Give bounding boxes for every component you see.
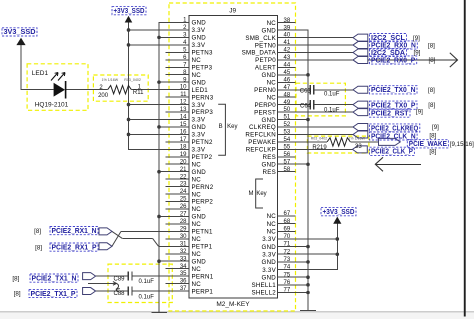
svg-text:56: 56 [284,152,291,158]
svg-text:PCIE2_RX1_P: PCIE2_RX1_P [52,244,97,251]
svg-text:30: 30 [180,234,187,240]
svg-text:45: 45 [284,70,291,76]
svg-text:3.3V: 3.3V [192,132,206,139]
svg-text:69: 69 [284,226,291,232]
svg-text:1% 1/16W: 1% 1/16W [348,137,365,141]
svg-text:PERN2: PERN2 [192,184,214,191]
svg-text:GND: GND [192,214,207,221]
svg-text:NC: NC [267,229,277,236]
svg-text:HQ19-2101: HQ19-2101 [35,102,69,109]
svg-text:[8]: [8] [429,148,436,155]
svg-text:[8]: [8] [429,132,436,139]
svg-text:NC: NC [267,221,277,228]
svg-text:+3V3_SSD: +3V3_SSD [114,8,145,15]
svg-text:NC: NC [267,80,277,87]
svg-text:GND: GND [192,79,207,86]
svg-text:NC: NC [192,161,202,168]
svg-text:37: 37 [180,286,187,292]
svg-text:PERP1: PERP1 [192,288,214,295]
svg-text:19: 19 [180,152,187,158]
svg-text:33: 33 [355,144,362,150]
svg-text:67: 67 [284,211,291,217]
svg-text:33: 33 [180,256,187,262]
svg-text:18: 18 [180,144,187,150]
svg-text:PERP0: PERP0 [254,102,276,109]
svg-text:C88: C88 [113,291,125,297]
svg-text:Key: Key [227,124,237,130]
svg-text:31: 31 [180,241,187,247]
svg-text:[8]: [8] [428,102,435,109]
svg-text:GND: GND [262,72,277,79]
svg-text:SHELL1: SHELL1 [251,282,276,289]
svg-text:70: 70 [284,234,291,240]
svg-text:16: 16 [180,130,187,136]
svg-text:PERN1: PERN1 [192,273,214,280]
svg-text:46: 46 [284,77,291,83]
svg-text:[9]: [9] [414,50,421,57]
svg-text:44: 44 [284,63,291,69]
svg-text:48: 48 [284,92,291,98]
svg-text:0.1uF: 0.1uF [139,279,155,285]
svg-text:12: 12 [180,100,187,106]
svg-text:GND: GND [262,244,277,251]
svg-text:R03_0402: R03_0402 [124,78,141,82]
svg-text:76: 76 [284,280,291,286]
svg-text:PETP2: PETP2 [192,154,213,161]
svg-text:0.1uF: 0.1uF [324,108,340,114]
svg-text:27: 27 [180,212,187,218]
svg-text:200: 200 [98,93,109,99]
svg-text:20: 20 [180,159,187,165]
svg-text:54: 54 [284,137,291,143]
svg-text:41: 41 [284,40,291,46]
svg-text:PERP3: PERP3 [192,109,214,116]
svg-text:36: 36 [180,279,187,285]
svg-text:PERN0: PERN0 [254,87,276,94]
svg-text:[8]: [8] [14,291,21,298]
svg-text:25: 25 [180,197,187,203]
svg-text:C89: C89 [113,276,125,282]
svg-text:52: 52 [284,122,291,128]
svg-text:3.3V: 3.3V [262,251,276,258]
svg-text:NC: NC [267,20,277,27]
svg-text:REFCLKP: REFCLKP [246,147,276,154]
svg-text:PERN3: PERN3 [192,94,214,101]
svg-text:3.3V: 3.3V [192,117,206,124]
svg-text:73: 73 [284,257,291,263]
svg-text:PETP0: PETP0 [255,57,276,64]
svg-text:26: 26 [180,204,187,210]
svg-text:[8]: [8] [35,244,42,251]
svg-text:75: 75 [284,272,291,278]
svg-text:[8]: [8] [428,87,435,94]
svg-text:49: 49 [284,100,291,106]
svg-text:1% 1/16W: 1% 1/16W [102,78,119,82]
svg-text:PCIE2_TX1_P: PCIE2_TX1_P [31,291,76,298]
svg-text:PEWAKE: PEWAKE [248,139,276,146]
svg-text:39: 39 [284,25,291,31]
svg-text:NC: NC [192,176,202,183]
svg-text:R219: R219 [312,145,327,151]
svg-text:PERST: PERST [254,109,276,116]
svg-text:71: 71 [284,242,291,248]
svg-text:[8]: [8] [12,275,19,282]
svg-text:[9]: [9] [416,109,423,116]
svg-text:10: 10 [180,85,187,91]
svg-text:RES: RES [263,154,276,161]
svg-text:[8]: [8] [34,228,41,235]
svg-text:ALERT: ALERT [255,65,276,72]
svg-text:GND: GND [262,274,277,281]
svg-text:29: 29 [180,226,187,232]
svg-text:SHELL2: SHELL2 [251,290,276,297]
svg-text:GND: GND [262,27,277,34]
svg-text:SMB_DATA: SMB_DATA [242,50,277,57]
svg-text:0.1uF: 0.1uF [139,294,155,300]
svg-text:PCIE2_RST: PCIE2_RST [371,110,409,117]
svg-text:17: 17 [180,137,187,143]
svg-text:77: 77 [284,288,291,294]
svg-text:28: 28 [180,219,187,225]
svg-text:GND: GND [192,169,207,176]
svg-text:PCIE2_TX0_N: PCIE2_TX0_N [371,87,416,94]
svg-text:Key: Key [256,191,266,197]
svg-text:3V3_SSD: 3V3_SSD [4,29,36,36]
svg-text:PETN0: PETN0 [255,42,277,49]
svg-text:NC: NC [192,281,202,288]
svg-text:50: 50 [284,107,291,113]
svg-text:13: 13 [180,107,187,113]
svg-text:3.3V: 3.3V [262,267,276,274]
svg-text:SMB_CLK: SMB_CLK [245,35,276,42]
svg-text:GND: GND [192,20,207,27]
svg-text:40: 40 [284,33,291,39]
svg-text:53: 53 [284,130,291,136]
svg-text:NC: NC [192,221,202,228]
svg-text:RES: RES [263,169,276,176]
svg-text:LED1: LED1 [192,87,209,94]
svg-text:NC: NC [192,266,202,273]
svg-text:LED1: LED1 [32,70,49,77]
svg-text:+3V3_SSD: +3V3_SSD [323,209,355,216]
svg-text:PETP3: PETP3 [192,64,213,71]
svg-text:GND: GND [262,259,277,266]
svg-text:57: 57 [284,159,291,165]
svg-text:3.3V: 3.3V [192,147,206,154]
svg-text:GND: GND [192,258,207,265]
svg-text:PETN3: PETN3 [192,50,214,57]
svg-text:PCIE2_RX1_N: PCIE2_RX1_N [52,228,97,235]
svg-text:[8]: [8] [429,57,436,64]
svg-text:43: 43 [284,55,291,61]
svg-text:PCIE2_RX0_P: PCIE2_RX0_P [371,57,416,64]
svg-text:0.1uF: 0.1uF [324,91,340,97]
svg-text:R11: R11 [133,90,144,96]
svg-text:22: 22 [180,174,187,180]
svg-text:CLKREQ: CLKREQ [249,124,276,131]
svg-text:REFCLKN: REFCLKN [245,132,276,139]
svg-text:PCIE2_CLK_N: PCIE2_CLK_N [371,133,416,140]
svg-text:[8]: [8] [428,42,435,49]
svg-text:68: 68 [284,219,291,225]
svg-text:38: 38 [284,18,291,24]
svg-text:PETP1: PETP1 [192,244,213,251]
svg-text:15: 15 [180,122,187,128]
svg-text:NC: NC [192,251,202,258]
svg-text:PCIE_WAKE: PCIE_WAKE [409,141,447,148]
svg-text:GND: GND [192,124,207,131]
svg-text:R03_0402: R03_0402 [311,137,328,141]
svg-text:55: 55 [284,144,291,150]
svg-text:NC: NC [192,206,202,213]
svg-text:NC: NC [192,72,202,79]
svg-text:[9]: [9] [413,35,420,42]
svg-text:PERP2: PERP2 [192,199,214,206]
svg-text:[9,15,16]: [9,15,16] [450,141,474,148]
svg-text:NC: NC [192,236,202,243]
svg-text:NC: NC [192,57,202,64]
svg-text:3.3V: 3.3V [192,42,206,49]
svg-text:PETN2: PETN2 [192,139,214,146]
svg-text:51: 51 [284,115,291,121]
svg-text:35: 35 [180,271,187,277]
svg-text:32: 32 [180,249,187,255]
svg-text:B: B [219,124,223,130]
svg-text:74: 74 [284,265,291,271]
svg-text:11: 11 [180,92,187,98]
svg-text:C64: C64 [300,103,312,109]
svg-text:NC: NC [267,94,277,101]
svg-text:21: 21 [180,167,187,173]
svg-text:C63: C63 [300,88,312,94]
svg-text:M2_M-KEY: M2_M-KEY [216,301,250,308]
svg-text:PCIE2_TX1_N: PCIE2_TX1_N [32,275,77,282]
svg-text:14: 14 [180,115,187,121]
svg-text:3.3V: 3.3V [192,102,206,109]
svg-text:GND: GND [262,117,277,124]
svg-text:PCIE2_CLKREQ: PCIE2_CLKREQ [371,125,419,132]
svg-text:NC: NC [267,213,277,220]
svg-text:PCIE2_TX0_P: PCIE2_TX0_P [371,102,416,109]
svg-text:23: 23 [180,182,187,188]
svg-text:GND: GND [192,35,207,42]
svg-text:58: 58 [284,167,291,173]
svg-text:47: 47 [284,85,291,91]
svg-text:PETN1: PETN1 [192,229,214,236]
svg-text:PCIE2_CLK_P: PCIE2_CLK_P [371,149,413,156]
svg-text:J9: J9 [229,8,236,15]
svg-text:M: M [249,191,254,197]
svg-text:GND: GND [262,161,277,168]
svg-text:72: 72 [284,249,291,255]
svg-text:3.3V: 3.3V [262,236,276,243]
svg-text:24: 24 [180,189,187,195]
svg-text:NC: NC [192,191,202,198]
svg-text:34: 34 [180,264,187,270]
svg-text:[9]: [9] [432,124,439,131]
svg-text:42: 42 [284,48,291,54]
svg-text:3.3V: 3.3V [192,27,206,34]
